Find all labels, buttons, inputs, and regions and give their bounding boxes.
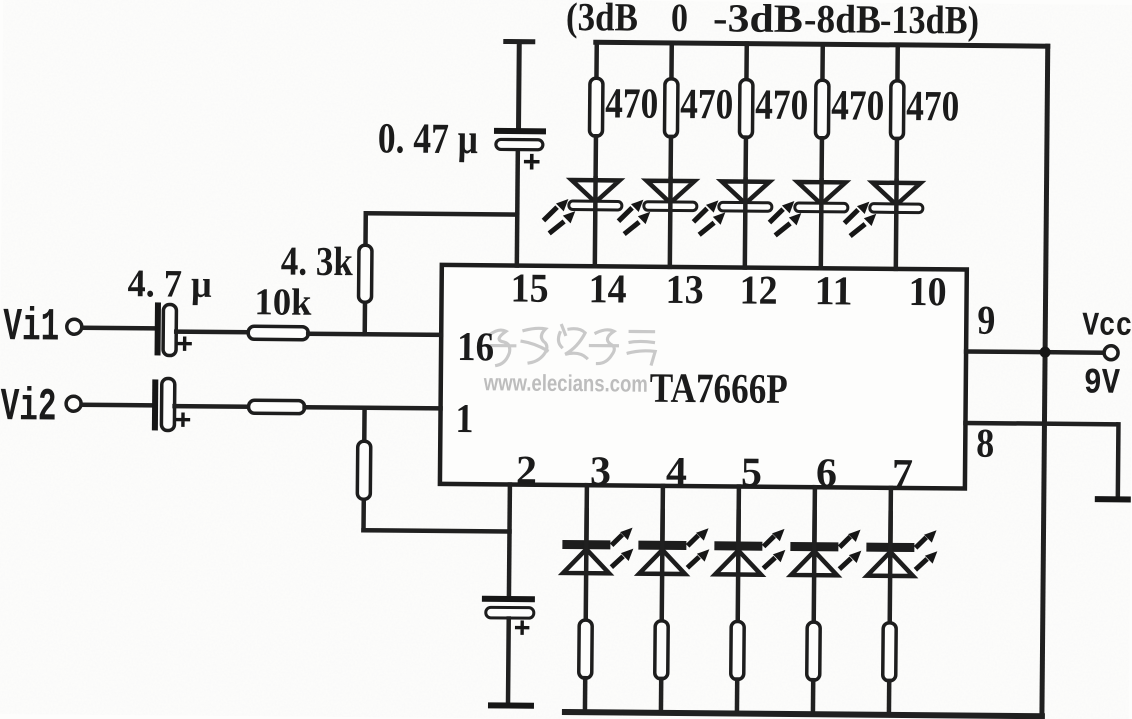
svg-text:13: 13: [665, 266, 703, 312]
resistor R8: [249, 400, 305, 413]
IC U1 TA7666P body: [440, 265, 967, 489]
ground C4: [491, 702, 531, 708]
wire pin7 to LED10: [888, 488, 893, 543]
wire C4 to ground: [506, 619, 511, 703]
wire R11 to bottom bus: [659, 679, 664, 713]
wire 4.3k top link: [366, 213, 517, 214]
wire Vi1 to C1: [82, 326, 155, 331]
svg-text:8: 8: [976, 420, 994, 466]
LED3: [695, 181, 772, 234]
wire LED8 to R12: [735, 512, 740, 622]
wire LED9 to R13: [811, 512, 816, 622]
wire pin3 to LED6: [584, 485, 589, 540]
svg-text:10: 10: [908, 268, 946, 314]
LED2: [620, 180, 697, 233]
wire R4 to LED4: [819, 138, 824, 182]
resistor R7 10k: [248, 326, 308, 340]
wire LED6 to R10: [583, 510, 588, 620]
svg-text:470: 470: [605, 80, 658, 127]
wire LED1 to pin14: [593, 178, 598, 266]
svg-text:-8dB: -8dB: [804, 0, 881, 42]
svg-text:14: 14: [588, 265, 626, 311]
resistor R9 lower left: [357, 408, 371, 531]
wire Vi2 to C3: [82, 403, 153, 408]
wire pin8 to ground: [965, 423, 1119, 497]
node Vcc terminal: [1104, 346, 1118, 360]
junction Vcc node: [1040, 347, 1051, 358]
wire R9 to pin2 line: [364, 530, 510, 531]
wire R8 to pin1: [305, 407, 441, 408]
wire C1 to R7: [176, 329, 248, 334]
LED5: [846, 182, 923, 235]
svg-text:-3dB: -3dB: [713, 0, 803, 41]
ground pin8: [1098, 496, 1131, 502]
wire LED5 to pin10: [894, 181, 899, 269]
wire pin2 down: [507, 485, 512, 597]
wire R10 to bottom bus: [583, 678, 588, 712]
svg-text:10k: 10k: [254, 281, 312, 324]
svg-text:-13dB): -13dB): [880, 0, 979, 43]
svg-text:470: 470: [906, 83, 959, 130]
node Vi2 input terminal: [0, 381, 81, 434]
wire bus to R2: [669, 43, 674, 79]
resistor R10: [579, 620, 593, 678]
wire R12 to bottom bus: [735, 680, 740, 714]
resistor R11: [655, 621, 669, 679]
wire R13 to bottom bus: [811, 680, 816, 714]
dB scale label: [566, 0, 979, 43]
wire pin5 to LED8: [736, 487, 741, 542]
resistor R2 470: [664, 79, 678, 137]
capacitor C2 0.47u top terminal bar: [505, 41, 533, 128]
svg-text:12: 12: [739, 267, 777, 313]
resistor R13: [807, 622, 821, 680]
svg-text:1: 1: [455, 395, 473, 441]
resistor R5 470: [890, 81, 904, 139]
svg-text:5: 5: [741, 449, 762, 495]
capacitor C3: [155, 378, 189, 430]
svg-text:11: 11: [814, 267, 852, 313]
watermark logo: [489, 325, 655, 367]
wire bus to R3: [744, 44, 749, 80]
wire R5 to LED5: [894, 139, 899, 183]
wire right Vcc vertical: [1042, 46, 1048, 716]
svg-text:2: 2: [516, 447, 537, 493]
wire bottom Vcc bus: [565, 712, 1042, 716]
svg-text:470: 470: [680, 81, 733, 128]
wire LED10 to R14: [887, 513, 892, 623]
wire R1 to LED1: [593, 136, 598, 180]
svg-text:Vi2: Vi2: [0, 381, 56, 433]
capacitor C1 4.7u: [158, 304, 191, 355]
resistor R12: [731, 621, 745, 679]
wire LED3 to pin12: [743, 180, 748, 268]
wire pin9 to Vcc: [966, 351, 1104, 352]
svg-text:0. 47 μ: 0. 47 μ: [378, 115, 478, 163]
svg-text:www.elecians.com: www.elecians.com: [483, 369, 648, 396]
svg-text:0: 0: [671, 0, 688, 40]
wire C3 to R8: [175, 404, 249, 409]
wire LED2 to pin13: [668, 179, 673, 267]
resistor R6 4.3k: [358, 213, 372, 334]
LED8: [714, 528, 785, 575]
LED1: [545, 180, 622, 233]
wire bus to R4: [820, 44, 825, 80]
wire R3 to LED3: [743, 138, 748, 182]
LED6: [562, 527, 633, 574]
svg-text:TA7666P: TA7666P: [650, 366, 788, 413]
svg-text:470: 470: [755, 82, 808, 129]
svg-text:7: 7: [892, 450, 913, 496]
svg-text:Vcc: Vcc: [1082, 308, 1132, 345]
svg-text:4: 4: [666, 448, 687, 494]
svg-text:3: 3: [590, 447, 611, 493]
svg-text:15: 15: [510, 265, 548, 311]
wire pin4 to LED7: [660, 486, 665, 541]
resistor R4 470: [815, 80, 829, 138]
svg-text:4. 3k: 4. 3k: [281, 238, 354, 285]
resistor R1 470: [589, 78, 603, 136]
svg-text:470: 470: [831, 82, 884, 129]
capacitor C2 0.47u: [496, 131, 543, 168]
svg-text:16: 16: [457, 323, 494, 369]
capacitor C4: [485, 599, 534, 633]
LED4: [771, 182, 848, 235]
resistor R14: [883, 623, 897, 681]
wire R2 to LED2: [668, 137, 673, 181]
svg-text:Vi1: Vi1: [3, 301, 59, 353]
wire pin6 to LED9: [812, 487, 817, 542]
wire LED7 to R11: [659, 511, 664, 621]
LED7: [638, 528, 709, 575]
wire pin15 to C2: [517, 148, 518, 266]
svg-text:9: 9: [977, 297, 995, 343]
wire bus to R5: [895, 45, 900, 81]
resistor R3 470: [739, 80, 753, 138]
wire R14 to bottom bus: [887, 681, 892, 715]
svg-text:4. 7 μ: 4. 7 μ: [127, 262, 211, 306]
node Vi1 input terminal: [3, 301, 82, 354]
svg-text:6: 6: [816, 449, 837, 495]
wire LED4 to pin11: [819, 180, 824, 268]
wire R7 to pin16: [308, 334, 441, 335]
svg-text:9V: 9V: [1084, 363, 1121, 404]
LED10: [866, 530, 937, 577]
wire bus to R1: [594, 42, 599, 78]
LED9: [790, 529, 861, 576]
svg-text:(3dB: (3dB: [566, 0, 638, 40]
wire top Vcc bus: [596, 42, 1048, 46]
